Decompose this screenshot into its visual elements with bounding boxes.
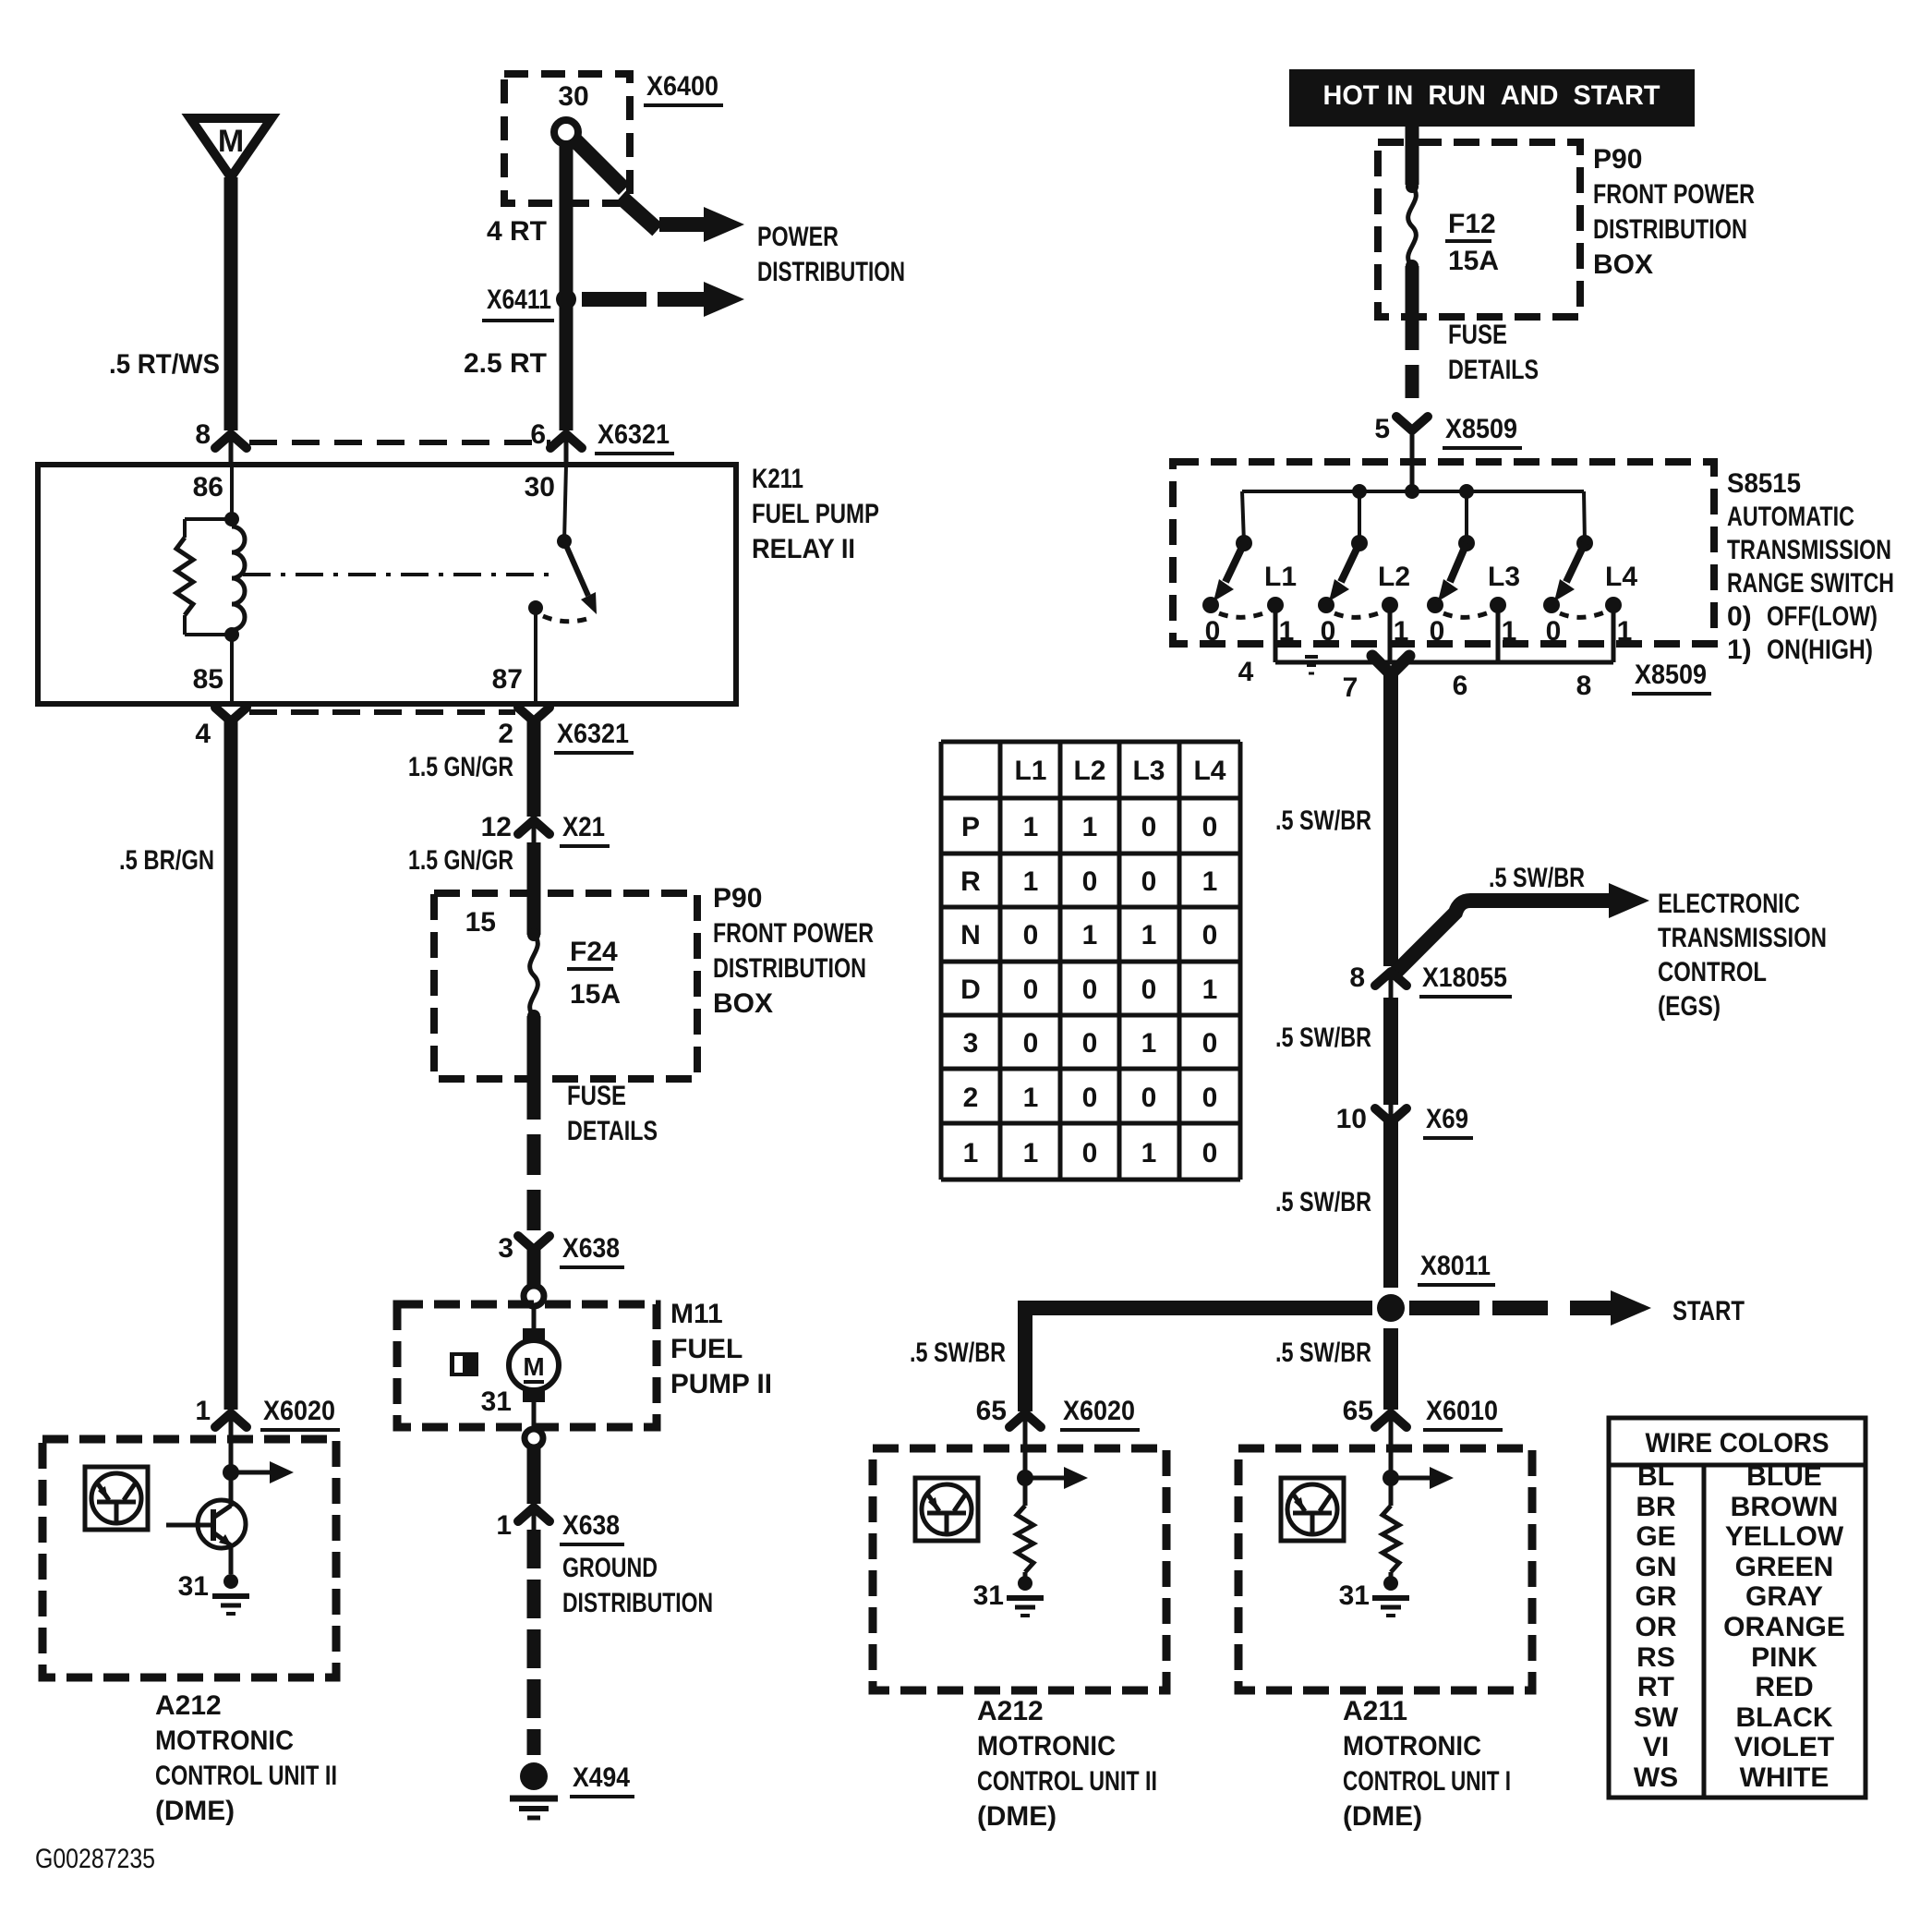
svg-text:(DME): (DME)	[155, 1796, 235, 1826]
svg-text:ELECTRONIC: ELECTRONIC	[1658, 889, 1800, 919]
svg-text:1: 1	[1202, 866, 1218, 897]
svg-text:SW: SW	[1634, 1702, 1679, 1733]
svg-text:ON(HIGH): ON(HIGH)	[1767, 635, 1873, 665]
svg-text:0: 0	[1205, 616, 1221, 647]
svg-text:A211: A211	[1343, 1696, 1407, 1726]
svg-text:5: 5	[1374, 414, 1390, 444]
svg-text:BL: BL	[1637, 1461, 1674, 1492]
svg-text:P: P	[961, 812, 980, 842]
svg-text:0: 0	[1082, 975, 1098, 1005]
svg-text:WIRE COLORS: WIRE COLORS	[1646, 1428, 1829, 1459]
svg-text:ORANGE: ORANGE	[1723, 1612, 1845, 1642]
svg-text:DETAILS: DETAILS	[1448, 355, 1539, 385]
svg-text:6: 6	[1453, 671, 1468, 701]
svg-text:0: 0	[1082, 1083, 1098, 1113]
svg-text:1: 1	[1023, 1083, 1039, 1113]
svg-text:1: 1	[1023, 1138, 1039, 1168]
svg-text:WHITE: WHITE	[1740, 1762, 1829, 1793]
svg-text:L3: L3	[1132, 756, 1165, 786]
svg-text:.5 SW/BR: .5 SW/BR	[910, 1338, 1006, 1368]
svg-text:OFF(LOW): OFF(LOW)	[1767, 601, 1878, 632]
svg-text:1: 1	[1082, 920, 1098, 950]
svg-text:(DME): (DME)	[977, 1801, 1057, 1832]
svg-text:X8509: X8509	[1445, 414, 1517, 444]
svg-text:BOX: BOX	[1593, 249, 1653, 280]
svg-text:CONTROL UNIT II: CONTROL UNIT II	[155, 1761, 337, 1791]
svg-text:L2: L2	[1073, 756, 1105, 786]
svg-text:8: 8	[1349, 962, 1365, 993]
svg-text:1: 1	[963, 1138, 979, 1168]
svg-text:0: 0	[1202, 812, 1218, 842]
svg-text:TRANSMISSION: TRANSMISSION	[1658, 923, 1827, 953]
svg-text:X6020: X6020	[263, 1396, 335, 1426]
svg-text:8: 8	[1576, 671, 1592, 701]
svg-text:GE: GE	[1636, 1521, 1675, 1552]
svg-text:D: D	[960, 975, 981, 1005]
svg-text:65: 65	[1343, 1396, 1373, 1426]
svg-text:X494: X494	[573, 1762, 630, 1793]
svg-text:X69: X69	[1426, 1104, 1468, 1134]
svg-text:1: 1	[1023, 812, 1039, 842]
svg-text:L4: L4	[1605, 562, 1637, 592]
svg-text:1: 1	[1617, 616, 1633, 647]
svg-text:PUMP II: PUMP II	[670, 1369, 772, 1399]
svg-text:X8509: X8509	[1635, 660, 1707, 690]
svg-text:0: 0	[1321, 616, 1336, 647]
svg-text:1: 1	[1394, 616, 1409, 647]
svg-text:0: 0	[1082, 1138, 1098, 1168]
svg-text:85: 85	[193, 664, 223, 695]
svg-text:OR: OR	[1636, 1612, 1677, 1642]
svg-text:VI: VI	[1643, 1732, 1669, 1762]
svg-text:CONTROL: CONTROL	[1658, 957, 1767, 987]
svg-text:1: 1	[1141, 920, 1157, 950]
svg-text:DISTRIBUTION: DISTRIBUTION	[1593, 214, 1747, 245]
svg-text:FRONT POWER: FRONT POWER	[1593, 179, 1755, 210]
svg-text:1: 1	[496, 1510, 512, 1541]
svg-text:4 RT: 4 RT	[487, 216, 547, 247]
svg-text:TRANSMISSION: TRANSMISSION	[1727, 535, 1891, 565]
svg-text:12: 12	[481, 812, 512, 842]
svg-text:L1: L1	[1014, 756, 1046, 786]
svg-text:0: 0	[1023, 975, 1039, 1005]
svg-text:0: 0	[1202, 1138, 1218, 1168]
svg-text:0): 0)	[1727, 601, 1752, 632]
svg-text:GROUND: GROUND	[562, 1553, 658, 1583]
svg-text:DISTRIBUTION: DISTRIBUTION	[757, 257, 905, 287]
svg-text:N: N	[960, 920, 981, 950]
svg-text:1: 1	[195, 1396, 211, 1426]
svg-text:86: 86	[193, 472, 223, 502]
svg-text:15A: 15A	[1448, 246, 1499, 276]
svg-text:X21: X21	[562, 812, 605, 842]
svg-text:0: 0	[1546, 616, 1562, 647]
svg-text:X6321: X6321	[557, 719, 629, 749]
svg-text:P90: P90	[713, 883, 762, 914]
svg-text:4: 4	[1238, 657, 1254, 687]
svg-text:M11: M11	[670, 1299, 723, 1329]
svg-text:FRONT POWER: FRONT POWER	[713, 918, 874, 949]
svg-text:F12: F12	[1448, 209, 1496, 239]
svg-text:X18055: X18055	[1422, 962, 1507, 993]
svg-text:BLUE: BLUE	[1746, 1461, 1822, 1492]
svg-text:0: 0	[1202, 1083, 1218, 1113]
svg-text:0: 0	[1023, 1028, 1039, 1059]
svg-text:1): 1)	[1727, 635, 1752, 665]
svg-text:30: 30	[558, 81, 588, 112]
svg-text:1.5 GN/GR: 1.5 GN/GR	[408, 752, 513, 782]
svg-text:X6400: X6400	[646, 71, 718, 102]
svg-text:RED: RED	[1755, 1672, 1813, 1702]
svg-text:DISTRIBUTION: DISTRIBUTION	[562, 1588, 713, 1618]
svg-text:F24: F24	[570, 937, 618, 967]
svg-text:10: 10	[1336, 1104, 1367, 1134]
svg-text:7: 7	[1343, 672, 1358, 703]
svg-text:1: 1	[1279, 616, 1295, 647]
svg-text:RANGE SWITCH: RANGE SWITCH	[1727, 568, 1894, 599]
svg-text:WS: WS	[1634, 1762, 1678, 1793]
svg-text:L1: L1	[1264, 562, 1297, 592]
svg-text:1: 1	[1202, 975, 1218, 1005]
svg-text:POWER: POWER	[757, 222, 839, 252]
svg-text:4: 4	[195, 719, 211, 749]
svg-text:0: 0	[1082, 866, 1098, 897]
svg-text:87: 87	[492, 664, 523, 695]
svg-text:0: 0	[1141, 866, 1157, 897]
svg-text:BR: BR	[1636, 1492, 1676, 1522]
svg-text:VIOLET: VIOLET	[1734, 1732, 1834, 1762]
svg-text:S8515: S8515	[1727, 468, 1801, 499]
svg-text:START: START	[1672, 1296, 1745, 1326]
svg-text:X638: X638	[562, 1233, 620, 1264]
svg-text:X6010: X6010	[1426, 1396, 1498, 1426]
svg-text:X8011: X8011	[1420, 1251, 1491, 1281]
svg-text:15: 15	[465, 907, 496, 938]
svg-text:15A: 15A	[570, 979, 621, 1010]
svg-text:31: 31	[178, 1571, 209, 1602]
svg-text:M: M	[523, 1352, 544, 1381]
svg-text:.5 RT/WS: .5 RT/WS	[109, 349, 220, 380]
svg-text:BROWN: BROWN	[1731, 1492, 1839, 1522]
svg-text:.5 SW/BR: .5 SW/BR	[1275, 805, 1371, 836]
svg-text:1: 1	[1082, 812, 1098, 842]
svg-text:X6020: X6020	[1063, 1396, 1135, 1426]
svg-text:1: 1	[1141, 1028, 1157, 1059]
svg-text:DETAILS: DETAILS	[567, 1116, 658, 1146]
svg-text:X6411: X6411	[487, 285, 551, 315]
svg-text:GREEN: GREEN	[1735, 1552, 1834, 1582]
svg-text:6: 6	[530, 419, 546, 450]
svg-text:0: 0	[1082, 1028, 1098, 1059]
svg-text:0: 0	[1430, 616, 1445, 647]
svg-text:DISTRIBUTION: DISTRIBUTION	[713, 953, 866, 984]
svg-text:A212: A212	[977, 1696, 1044, 1726]
svg-text:MOTRONIC: MOTRONIC	[1343, 1731, 1481, 1762]
svg-text:1: 1	[1141, 1138, 1157, 1168]
svg-text:MOTRONIC: MOTRONIC	[977, 1731, 1116, 1762]
svg-text:FUEL: FUEL	[670, 1334, 743, 1364]
svg-text:YELLOW: YELLOW	[1725, 1521, 1844, 1552]
svg-text:31: 31	[1339, 1580, 1370, 1611]
svg-text:0: 0	[1202, 1028, 1218, 1059]
svg-text:.5 BR/GN: .5 BR/GN	[119, 845, 214, 876]
svg-text:1: 1	[1502, 616, 1517, 647]
svg-text:RELAY II: RELAY II	[752, 534, 855, 564]
svg-text:(DME): (DME)	[1343, 1801, 1422, 1832]
svg-text:P90: P90	[1593, 144, 1642, 175]
svg-text:GRAY: GRAY	[1745, 1581, 1823, 1612]
svg-text:K211: K211	[752, 464, 803, 494]
svg-text:3: 3	[498, 1233, 513, 1264]
svg-text:30: 30	[525, 472, 555, 502]
svg-text:FUEL PUMP: FUEL PUMP	[752, 499, 879, 529]
svg-text:2: 2	[498, 719, 513, 749]
svg-text:L2: L2	[1378, 562, 1410, 592]
svg-text:G00287235: G00287235	[35, 1844, 155, 1874]
svg-text:0: 0	[1202, 920, 1218, 950]
svg-text:1: 1	[1023, 866, 1039, 897]
svg-text:R: R	[960, 866, 981, 897]
svg-text:X638: X638	[562, 1510, 620, 1541]
svg-text:CONTROL UNIT II: CONTROL UNIT II	[977, 1766, 1157, 1797]
svg-text:RS: RS	[1636, 1642, 1675, 1673]
svg-text:RT: RT	[1637, 1672, 1674, 1702]
svg-text:MOTRONIC: MOTRONIC	[155, 1725, 294, 1756]
svg-text:8: 8	[195, 419, 211, 450]
svg-text:BOX: BOX	[713, 988, 773, 1019]
svg-text:3: 3	[963, 1028, 979, 1059]
svg-text:M: M	[218, 124, 244, 159]
svg-text:2.5 RT: 2.5 RT	[464, 348, 547, 379]
svg-text:.5 SW/BR: .5 SW/BR	[1275, 1023, 1371, 1053]
svg-text:L4: L4	[1193, 756, 1226, 786]
svg-text:GR: GR	[1636, 1581, 1677, 1612]
svg-text:X6321: X6321	[598, 419, 670, 450]
svg-text:HOT IN RUN AND START: HOT IN RUN AND START	[1323, 80, 1660, 111]
svg-text:1.5 GN/GR: 1.5 GN/GR	[408, 845, 513, 876]
svg-text:65: 65	[976, 1396, 1007, 1426]
svg-text:PINK: PINK	[1751, 1642, 1817, 1673]
svg-text:.5 SW/BR: .5 SW/BR	[1275, 1187, 1371, 1217]
svg-text:L3: L3	[1488, 562, 1520, 592]
svg-text:.5 SW/BR: .5 SW/BR	[1489, 863, 1585, 893]
svg-text:GN: GN	[1636, 1552, 1677, 1582]
svg-text:A212: A212	[155, 1690, 222, 1721]
svg-text:BLACK: BLACK	[1736, 1702, 1833, 1733]
svg-text:(EGS): (EGS)	[1658, 991, 1721, 1022]
svg-text:FUSE: FUSE	[567, 1081, 626, 1111]
svg-text:.5 SW/BR: .5 SW/BR	[1275, 1338, 1371, 1368]
svg-text:FUSE: FUSE	[1448, 320, 1507, 350]
svg-text:CONTROL UNIT I: CONTROL UNIT I	[1343, 1766, 1511, 1797]
svg-text:0: 0	[1141, 812, 1157, 842]
svg-text:31: 31	[481, 1386, 512, 1417]
svg-text:AUTOMATIC: AUTOMATIC	[1727, 502, 1854, 532]
svg-text:0: 0	[1141, 1083, 1157, 1113]
svg-text:31: 31	[973, 1580, 1004, 1611]
svg-text:2: 2	[963, 1083, 979, 1113]
svg-text:0: 0	[1141, 975, 1157, 1005]
svg-text:0: 0	[1023, 920, 1039, 950]
